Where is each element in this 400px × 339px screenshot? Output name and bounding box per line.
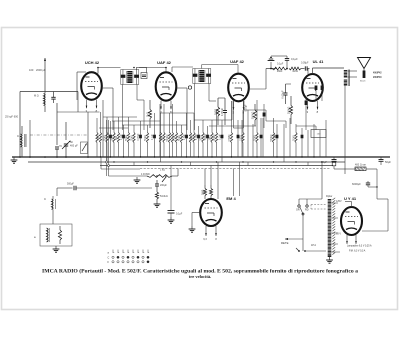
transformer T4 core hatch	[332, 198, 335, 200]
svg-text:1MΩ: 1MΩ	[98, 135, 100, 140]
resistor R11 500kΩ	[167, 113, 171, 157]
wire box top link	[53, 223, 60, 225]
potentiometer P1 1kΩ	[147, 175, 172, 178]
coil L2 antenna	[21, 126, 26, 157]
wire mesh4	[160, 112, 194, 114]
svg-text:400/P42: 400/P42	[373, 72, 382, 75]
capacitor C9	[286, 56, 288, 59]
capacitor C83 small	[321, 86, 324, 91]
wire T1 bottom drops	[122, 85, 124, 131]
svg-text:1MΩ: 1MΩ	[192, 135, 194, 140]
svg-text:0,05µF: 0,05µF	[138, 133, 140, 141]
resistor R1	[96, 118, 98, 157]
svg-text:500µF: 500µF	[67, 183, 74, 186]
wire drop x57	[56, 188, 58, 196]
resistor R14 50kΩ	[179, 125, 183, 157]
svg-text:z: z	[118, 252, 119, 254]
transformer T3 core	[347, 70, 349, 87]
wire V4 grid	[307, 69, 309, 75]
svg-text:0,1µF: 0,1µF	[219, 133, 221, 140]
resistor R51 in box	[58, 226, 61, 244]
tube V2 UAF 42	[156, 72, 177, 114]
bus hook1	[106, 157, 108, 162]
wire y231 h	[362, 230, 388, 232]
svg-text:s: s	[133, 252, 134, 254]
capacitor C55 0,1µF	[170, 166, 172, 211]
resistor R17 300Ω	[201, 120, 205, 157]
svg-text:50µF: 50µF	[385, 160, 391, 164]
svg-text:2kΩ: 2kΩ	[162, 136, 164, 140]
transformer T3 primary winding	[343, 70, 348, 78]
ground G2 inverted top	[270, 62, 272, 69]
tube V5 EM 4	[200, 199, 222, 226]
legend tube pinout table	[108, 250, 150, 264]
svg-text:C: C	[108, 256, 110, 259]
capacitor C41 0,05µF	[281, 84, 288, 104]
svg-text:500kΩ: 500kΩ	[167, 134, 169, 141]
ground G8 cap em4	[168, 217, 175, 223]
transformer T1 IF1	[121, 70, 139, 85]
resistor R2 1MΩ	[98, 112, 102, 157]
svg-text:1MΩ: 1MΩ	[277, 69, 283, 73]
wire EM4 feeds	[204, 169, 206, 186]
wire V1 anode up	[97, 68, 99, 74]
svg-text:0,1µF: 0,1µF	[174, 134, 176, 141]
capacitor C10 coupling	[301, 68, 305, 70]
resistor R21 150Ω	[241, 110, 245, 157]
switch S2 mains	[302, 239, 304, 251]
tube V3 UAF 42	[228, 74, 249, 115]
switch S1 GR-RD	[298, 205, 300, 207]
svg-text:50kΩ: 50kΩ	[255, 135, 257, 141]
variable capacitor CV1	[62, 122, 71, 157]
trimmer box with arrow	[81, 142, 88, 154]
wire dipolar	[321, 162, 323, 199]
wire v x233 v	[233, 101, 235, 128]
bus hook4	[190, 162, 192, 166]
svg-text:1MΩ: 1MΩ	[292, 69, 298, 73]
capacitor C80 small	[263, 113, 266, 117]
svg-text:20kΩ: 20kΩ	[112, 135, 114, 141]
resistor R21 1MΩ	[289, 67, 301, 73]
connector grid-cap circle	[188, 86, 191, 89]
ground G1 left end of bus	[11, 157, 18, 163]
wire bus2	[28, 161, 345, 163]
wire v x30	[29, 120, 31, 157]
ground G4 under R50	[154, 201, 161, 207]
wire V1 left boxline	[76, 72, 78, 100]
resistor R10 2kΩ	[162, 104, 166, 157]
svg-text:0,05µF: 0,05µF	[281, 90, 285, 99]
svg-text:7C: 7C	[59, 145, 62, 148]
bus hook8	[307, 162, 309, 166]
wire signal pair	[106, 120, 108, 176]
svg-text:1MΩ: 1MΩ	[200, 190, 204, 196]
wire v x103	[102, 100, 104, 157]
resistor R19 150kΩ	[214, 110, 218, 157]
svg-text:50kΩ: 50kΩ	[294, 135, 296, 141]
svg-text:RD: RD	[305, 209, 309, 212]
svg-text:50kΩ: 50kΩ	[179, 135, 181, 141]
svg-text:0,05µF: 0,05µF	[246, 104, 248, 112]
svg-text:0,5µF: 0,5µF	[274, 133, 276, 140]
svg-text:50kµF: 50kµF	[205, 133, 207, 140]
svg-text:1 kΩ: 1 kΩ	[160, 169, 165, 172]
junction dots left bus	[19, 156, 21, 158]
svg-text:0,05µF: 0,05µF	[220, 108, 224, 117]
wire V1 to T1 anode link	[98, 67, 121, 69]
resistor R18 1MΩ	[210, 120, 214, 157]
wire mesh11	[99, 127, 128, 129]
wire V1 grid right	[102, 87, 113, 89]
bus hook2	[133, 162, 135, 166]
svg-text:400 Ω var: 400 Ω var	[355, 164, 366, 167]
wire h y100	[286, 83, 292, 85]
svg-text:200µF: 200µF	[160, 184, 167, 187]
svg-text:0,05µF: 0,05µF	[301, 62, 309, 65]
svg-text:s: s	[143, 252, 144, 254]
capacitor C2 0,1µF	[121, 125, 125, 157]
wire mesh9	[296, 125, 316, 127]
svg-text:UAF 42: UAF 42	[157, 60, 172, 65]
potentiometer P1 arrow	[162, 177, 166, 182]
wire pot feed	[109, 175, 148, 177]
wire mesh2	[112, 120, 160, 122]
coil L1 antenna series	[44, 92, 46, 113]
resistor R9	[159, 113, 161, 157]
svg-text:tre velocità.: tre velocità.	[189, 274, 211, 279]
svg-text:Bivolt: Bivolt	[360, 80, 366, 83]
pickup box PU1	[40, 224, 72, 246]
bus hook3	[160, 157, 162, 162]
wire v x244b	[243, 101, 245, 110]
svg-text:0,1µF: 0,1µF	[277, 63, 284, 66]
bus hook6	[247, 162, 249, 166]
speaker LS1 coil	[363, 71, 366, 79]
wire dashed taps	[311, 204, 327, 206]
svg-text:200/P40: 200/P40	[373, 76, 382, 79]
transformer T4 winding	[327, 199, 332, 257]
wire v x232	[231, 101, 233, 120]
ground G5 under box	[53, 246, 60, 252]
svg-text:100: 100	[29, 68, 34, 72]
coil L3 pickup	[52, 196, 56, 224]
svg-text:2000 µF: 2000 µF	[36, 68, 46, 72]
resistor R12	[171, 104, 173, 157]
junction dots bus	[100, 156, 101, 157]
resistor R90 ballast box	[311, 130, 326, 138]
capacitor C10	[260, 118, 263, 157]
capacitor C82 small	[315, 86, 318, 91]
resistor R60 1MΩ	[200, 185, 206, 199]
capacitor C51 500µF series	[57, 187, 73, 189]
wire x390 up	[387, 199, 389, 231]
svg-text:UCH 42: UCH 42	[85, 60, 100, 65]
bus hook5	[221, 157, 223, 162]
wire pot right	[172, 175, 178, 177]
tube V6 UY 41	[341, 207, 362, 235]
svg-text:M Ω: M Ω	[34, 95, 39, 98]
wire top-left horizontal	[20, 91, 78, 93]
svg-text:GR: GR	[296, 209, 300, 212]
wire T1 to V2	[139, 67, 166, 69]
resistor R6 50kΩ	[126, 117, 130, 157]
resistor R8 50kΩ	[145, 125, 149, 157]
transformer T2 IF2	[193, 69, 211, 84]
svg-text:s: s	[113, 252, 114, 254]
svg-text:50kΩ: 50kΩ	[145, 135, 147, 141]
wire left drop	[19, 92, 21, 158]
resistor R15	[189, 120, 191, 157]
wire mesh1	[103, 116, 137, 118]
svg-text:100Ω: 100Ω	[213, 109, 217, 115]
ground G3 pot left	[134, 177, 141, 183]
svg-text:500kΩ: 500kΩ	[250, 112, 254, 120]
svg-text:U Y 41: U Y 41	[344, 196, 357, 201]
wire T2 drops	[194, 84, 196, 131]
transformer T3 secondary winding	[343, 80, 348, 86]
svg-text:RETE: RETE	[281, 241, 289, 245]
svg-text:UL 41: UL 41	[313, 59, 325, 64]
svg-text:1MΩ: 1MΩ	[210, 135, 212, 140]
resistor R4 20kΩ	[112, 121, 116, 157]
wire v x282	[285, 121, 287, 128]
tube V5 pins	[205, 226, 207, 236]
node arrow antenna trim	[44, 58, 46, 92]
svg-text:6000µF: 6000µF	[352, 182, 361, 186]
svg-text:z: z	[138, 252, 139, 254]
tube V1 UCH 42	[81, 72, 102, 113]
wire x345 down	[344, 157, 346, 174]
tube V6 top wire	[351, 202, 353, 208]
capacitor C6 0,1µF	[196, 126, 200, 157]
resistor R91 500kΩ	[250, 104, 256, 126]
speaker LS1 cone	[358, 58, 371, 69]
svg-text:Lampadine 6,3 V 0,25 A: Lampadine 6,3 V 0,25 A	[347, 245, 372, 248]
pickup coil	[47, 228, 50, 242]
wire v x160	[159, 104, 161, 157]
svg-text:C: C	[44, 197, 46, 201]
ground G6 EM4	[189, 226, 196, 232]
wire V3 right	[249, 88, 266, 90]
tube V6 pins	[346, 235, 348, 244]
resistor R5 3kΩ	[116, 117, 120, 157]
wire V2 to T2 anode link	[172, 66, 193, 68]
svg-text:300Ω: 300Ω	[201, 135, 203, 141]
svg-text:50kΩ: 50kΩ	[105, 135, 107, 141]
resistor R16 1MΩ	[192, 113, 196, 157]
wire V2 right	[176, 87, 187, 89]
svg-text:0,3µF: 0,3µF	[184, 133, 186, 140]
wire v x345 B+	[344, 85, 346, 157]
svg-text:1P A: 1P A	[311, 244, 316, 247]
wire det main	[266, 68, 277, 70]
wire mesh8	[266, 120, 286, 122]
svg-text:z: z	[128, 252, 129, 254]
capacitor C40 0,05µF	[220, 98, 227, 125]
svg-text:0,1µF: 0,1µF	[121, 133, 123, 140]
wire h y98	[218, 97, 225, 99]
resistor R24 50kΩ	[294, 124, 298, 157]
svg-text:150kΩ: 150kΩ	[214, 134, 216, 141]
capacitor C81 small	[305, 101, 308, 106]
resistor R42 100kΩ	[286, 96, 292, 124]
ground bus (main chassis line)	[12, 156, 390, 158]
ground G7 under T4	[326, 257, 333, 263]
wire speaker leads	[348, 70, 358, 72]
wire gang dashdot	[30, 134, 88, 136]
svg-text:25 kµF 600: 25 kµF 600	[5, 115, 19, 119]
wire mesh7	[244, 109, 266, 111]
resistor R7 25kΩ	[132, 125, 136, 157]
wire mesh6	[209, 125, 256, 127]
svg-text:5/10kΩ: 5/10kΩ	[160, 195, 168, 198]
wire x377 drop	[376, 169, 378, 199]
transformer T4 taps	[332, 202, 339, 204]
resistor R61 1MΩ	[209, 185, 212, 199]
svg-text:50kΩ: 50kΩ	[126, 135, 128, 141]
resistor R20 0,5MΩ	[229, 101, 233, 157]
wire EM4 left	[192, 212, 200, 214]
wire bus3	[100, 165, 333, 167]
wire v x266b	[265, 110, 267, 121]
svg-text:P.M. 6,3 V 0,3 A: P.M. 6,3 V 0,3 A	[349, 250, 366, 253]
svg-text:0,1µF: 0,1µF	[176, 213, 183, 216]
capacitor C9	[237, 120, 240, 157]
wire mid-left h	[57, 111, 100, 113]
wire V4 anode to output	[312, 68, 314, 74]
wire v x318	[315, 126, 317, 130]
tube V4 UL 41	[302, 74, 323, 114]
resistor R23 500kΩ	[271, 118, 275, 157]
resistor R22 50kΩ	[255, 100, 259, 157]
svg-text:5kΩ: 5kΩ	[145, 112, 149, 117]
svg-text:25kΩ: 25kΩ	[132, 135, 134, 141]
svg-text:500kΩ: 500kΩ	[271, 134, 273, 141]
capacitor C5 trimmer loop	[136, 67, 138, 70]
svg-text:0,1µF: 0,1µF	[291, 57, 298, 61]
capacitor C50 200µF	[155, 180, 159, 190]
capacitor C1	[109, 121, 112, 157]
resistor R40 100Ω	[213, 98, 219, 125]
wire v x88	[87, 112, 89, 157]
resistor R41 osc	[145, 100, 151, 128]
wire bus4 heater line	[140, 168, 330, 170]
svg-text:C: C	[17, 134, 19, 138]
junction dots bus2	[113, 161, 114, 162]
resistor R3 50kΩ	[105, 117, 109, 157]
wire det top h	[271, 55, 287, 57]
connector hop circles	[106, 161, 108, 163]
wire RETE arrow	[285, 238, 303, 240]
svg-text:125V: 125V	[336, 200, 342, 203]
wire verticals bare	[241, 120, 243, 157]
wire mesh5	[194, 119, 232, 121]
svg-text:4 FOND: 4 FOND	[141, 173, 150, 176]
svg-text:100kΩ: 100kΩ	[286, 107, 290, 115]
svg-text:0,1µF: 0,1µF	[196, 133, 198, 140]
junction dots det	[270, 68, 272, 70]
capacitor C1 input	[53, 92, 55, 98]
wire mesh3	[122, 124, 187, 126]
capacitor C8 0,1µF	[219, 120, 223, 157]
svg-text:0,1µF: 0,1µF	[152, 133, 154, 140]
capacitor C7 50kµF	[205, 126, 209, 157]
resistor R13 0,1µF	[174, 121, 178, 157]
resistor R50 5/10kΩ	[155, 190, 158, 201]
svg-text:Diplar: Diplar	[326, 195, 332, 198]
bus hook7	[283, 157, 285, 162]
capacitor C4 0,1µF	[152, 113, 156, 157]
svg-text:0,5MΩ: 0,5MΩ	[229, 134, 231, 141]
svg-text:63 V: 63 V	[336, 233, 341, 236]
capacitor C3 0,05µF	[138, 121, 142, 157]
wire mesh12	[234, 127, 244, 129]
switch S1 arm	[302, 213, 304, 215]
svg-text:400 µF: 400 µF	[70, 144, 78, 147]
wire T2 top to V3	[201, 65, 203, 69]
svg-text:z: z	[148, 252, 149, 254]
capacitor C11 0,5µF	[274, 124, 278, 157]
trimmer CT1	[55, 103, 59, 157]
svg-text:3kΩ: 3kΩ	[116, 136, 118, 140]
resistor R20 1MΩ	[272, 67, 287, 73]
svg-text:UAF 42: UAF 42	[230, 59, 245, 64]
capacitor C12	[301, 128, 304, 157]
capacitor C5 0,3µF	[184, 113, 188, 157]
svg-text:EM 4: EM 4	[226, 196, 236, 201]
wire bus4 left solid	[101, 168, 140, 170]
